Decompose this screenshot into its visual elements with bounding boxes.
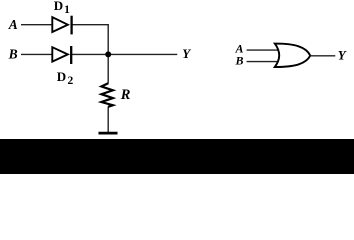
svg-text:D: D [57,69,66,84]
svg-text:Y: Y [182,46,191,61]
svg-text:R: R [120,87,131,103]
svg-text:D: D [54,0,63,13]
svg-text:A: A [8,17,18,32]
svg-text:Y: Y [338,47,347,62]
svg-text:B: B [8,47,18,62]
svg-text:B: B [235,54,244,68]
svg-text:2: 2 [68,75,74,87]
svg-text:1: 1 [64,4,70,16]
